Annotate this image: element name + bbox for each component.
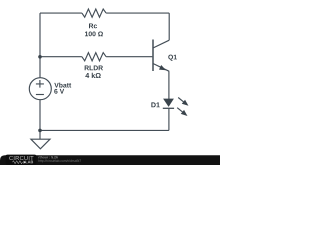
label 100 Ohm xyxy=(85,31,103,36)
label RLDR xyxy=(85,66,103,71)
voltage source Vbatt circle xyxy=(29,78,51,100)
label 6 V xyxy=(54,89,64,94)
watermark info line 2 xyxy=(38,160,81,163)
wire LED to bottom rail xyxy=(168,108,170,130)
watermark info line 1 xyxy=(38,156,57,158)
label D1 xyxy=(151,102,159,107)
LED D1 triangle xyxy=(163,99,174,107)
resistor RLDR zigzag xyxy=(82,53,106,61)
label Vbatt xyxy=(54,83,71,88)
wire emitter drop to LED xyxy=(168,71,170,99)
LED light arrow 2 xyxy=(176,106,190,118)
label Q1 xyxy=(168,55,177,61)
transistor Q1 body bar xyxy=(152,40,154,72)
wire base rail left xyxy=(40,56,82,58)
LED light arrow 1 xyxy=(177,95,191,107)
watermark logo play triangle xyxy=(24,161,26,164)
LED D1 cathode bar xyxy=(163,107,174,109)
label 4 kOhm xyxy=(85,73,100,78)
wire bottom rail xyxy=(40,129,169,131)
watermark logo squiggle xyxy=(13,161,23,164)
wire left rail xyxy=(39,13,41,78)
voltage source plus sign xyxy=(36,80,44,88)
transistor Q1 emitter diagonal xyxy=(153,64,169,72)
watermark bar xyxy=(0,155,220,165)
wire base rail right xyxy=(106,56,152,58)
wire top-right rail xyxy=(106,12,169,14)
watermark logo LAB xyxy=(26,161,34,164)
wire top-left rail xyxy=(40,12,82,14)
wire battery to ground xyxy=(39,100,41,140)
watermark logo CIRCUIT xyxy=(9,156,33,160)
transistor Q1 emitter arrowhead xyxy=(159,65,166,70)
node junction dot base xyxy=(38,55,42,59)
node junction dot ground xyxy=(38,129,42,133)
wire collector drop xyxy=(168,13,170,40)
ground xyxy=(31,139,50,149)
transistor Q1 collector diagonal xyxy=(153,40,169,48)
voltage source minus sign xyxy=(36,94,44,96)
label Rc xyxy=(89,24,97,29)
watermark logo plate xyxy=(6,155,37,165)
resistor Rc zigzag xyxy=(82,9,106,17)
